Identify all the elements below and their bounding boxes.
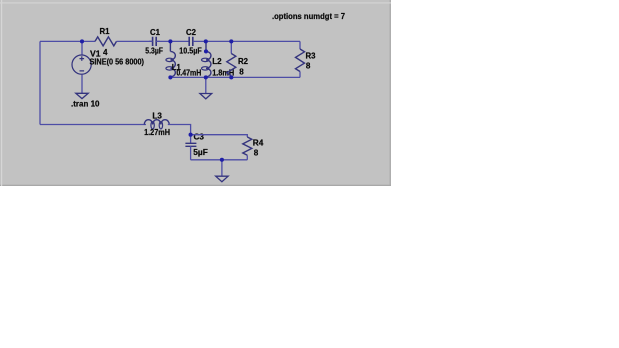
svg-text:SINE(0 56 8000): SINE(0 56 8000) [90,57,145,67]
junction dot gnd lower [220,158,224,162]
svg-text:R4: R4 [253,138,264,148]
wire L3 to corner down [168,125,191,144]
wire C3 bottom [190,146,192,160]
svg-text:5.3µF: 5.3µF [145,45,163,55]
ground below V1 [76,93,88,98]
svg-text:C2: C2 [186,27,196,37]
wire top rail left segment [40,40,95,42]
svg-text:R1: R1 [100,26,110,36]
wire left vertical [39,41,41,124]
svg-text:8: 8 [254,148,259,158]
resistor R4 [243,137,252,155]
inductor L3 [143,124,145,126]
node C2 out [204,39,208,43]
svg-text:10.5µF: 10.5µF [179,45,202,55]
wire C1 to C2 [156,40,189,42]
svg-text:0.47mH: 0.47mH [176,68,201,78]
voltage source V1 [81,41,83,54]
svg-text:.tran 10: .tran 10 [71,98,100,108]
node R2 top [229,39,233,43]
capacitor C2 [189,37,193,46]
inductor L2 [205,41,207,51]
svg-text:4: 4 [103,47,108,57]
wire rail to R4 top [191,135,248,137]
wire lower rail left [40,124,146,126]
ground lower [221,160,223,176]
svg-text:8: 8 [239,67,244,77]
node L2 top [204,49,208,53]
wire bottom rail [170,76,300,78]
svg-text:L2: L2 [212,56,222,66]
node gnd rail [204,75,208,79]
wire R1 to C1 [117,40,153,42]
resistor R1 [95,37,117,46]
svg-text:R3: R3 [306,50,316,60]
junction dot C3 top [189,133,193,137]
capacitor C1 [153,37,157,46]
capacitor C3 [185,143,196,146]
svg-text:8: 8 [306,61,311,71]
ground mid [205,77,207,93]
svg-text:R2: R2 [238,56,248,66]
svg-text:5µF: 5µF [193,147,208,157]
inductor L1 [169,41,171,51]
node R2 bottom [229,75,233,79]
wire bottom rail lower circuit [191,159,248,161]
schematic canvas background [0,0,391,186]
node C1-C2 junction [168,39,172,43]
svg-text:.options numdgt = 7: .options numdgt = 7 [272,11,345,21]
svg-text:C3: C3 [194,131,205,141]
wire C2 to right corner [193,40,300,42]
node V1 tap [80,39,84,43]
svg-text:C1: C1 [150,27,160,37]
svg-text:L3: L3 [152,110,162,120]
node L1 bottom [168,75,172,79]
resistor R3 [299,41,301,49]
resistor R2 [230,41,232,53]
svg-text:1.27mH: 1.27mH [144,127,170,137]
